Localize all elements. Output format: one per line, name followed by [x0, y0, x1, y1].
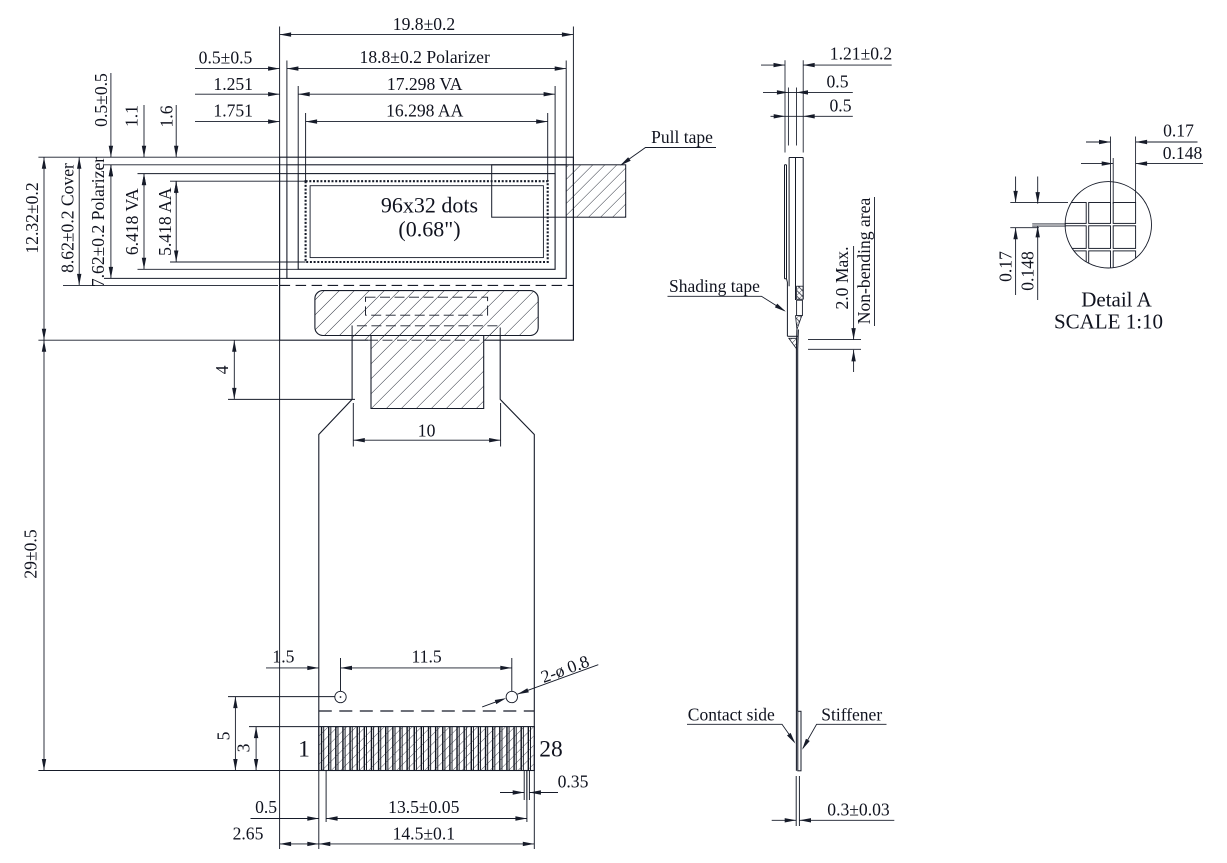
dim 0.148 left lines: [1037, 177, 1039, 301]
svg-text:Pull tape: Pull tape: [651, 127, 713, 147]
arrows dim 4: [232, 340, 236, 352]
side view sealant crosshatch block: [797, 286, 804, 299]
neck width extension ticks: [353, 403, 500, 447]
FPC neck right edge: [500, 336, 534, 771]
pin area left extension below: [325, 771, 327, 822]
arrow contact side leader: [787, 733, 797, 745]
svg-text:29±0.5: 29±0.5: [21, 529, 41, 578]
svg-text:Shading tape: Shading tape: [669, 276, 760, 296]
svg-text:0.3±0.03: 0.3±0.03: [827, 800, 890, 820]
dim 0.5 bottom leader line: [251, 818, 319, 820]
arrows dim 17.298: [298, 92, 310, 96]
svg-text:1.1: 1.1: [122, 105, 142, 127]
svg-text:5: 5: [213, 731, 233, 740]
arrows dim 18.8: [287, 66, 299, 70]
arrows dim 16.298: [306, 119, 318, 123]
dim 0.5 first extension lines: [788, 88, 796, 146]
side view glass right face: [802, 158, 804, 300]
dim 0.5 first lines: [763, 91, 853, 93]
dim 0.3±0.03 lines: [772, 819, 895, 821]
svg-text:(0.68"): (0.68"): [398, 217, 460, 242]
driver IC stiffener hatched rounded block: [315, 291, 538, 336]
polarizer right extension above: [565, 61, 567, 165]
dim 18.8±0.2 line: [287, 68, 566, 70]
arrow shading tape leader: [775, 304, 787, 314]
arrows dim 2.65: [280, 842, 292, 846]
hole diameter leader line: [482, 665, 598, 707]
FPC bend hidden dashed line: [319, 710, 535, 712]
dim 11.5 line: [341, 667, 512, 669]
stiffener underline and leader: [803, 724, 887, 748]
svg-text:1.6: 1.6: [156, 105, 176, 127]
svg-text:4: 4: [212, 365, 232, 374]
arrows dim 1.6: [174, 146, 178, 158]
svg-text:1.751: 1.751: [213, 101, 253, 121]
side view glass top cap: [789, 157, 803, 159]
dim 19.8±0.2 line: [280, 34, 574, 36]
side view module bottom cap: [787, 335, 798, 337]
pull tape body: [492, 165, 626, 217]
VA left extension above: [297, 86, 299, 174]
arrows dim 10: [353, 438, 365, 442]
arrows dim 13.5: [326, 816, 338, 820]
arrows dim 6.418: [142, 174, 146, 186]
svg-text:14.5±0.1: 14.5±0.1: [393, 824, 455, 844]
dim 1.6 lines: [175, 105, 177, 195]
dim 0.148 top lines: [1081, 163, 1203, 165]
arrows dim 7.62: [109, 165, 113, 177]
FPC tail hatched block: [353, 327, 500, 409]
arrow dim 0.5 bottom: [307, 816, 319, 820]
polarizer left extension above: [286, 61, 288, 165]
svg-text:0.17: 0.17: [1163, 121, 1194, 141]
dim 1.21±0.2 extension lines: [785, 60, 803, 152]
dim 1.21±0.2 lines: [761, 64, 892, 66]
polarizer bottom extension left: [104, 277, 287, 279]
svg-text:0.148: 0.148: [1018, 251, 1038, 291]
cover bottom hidden dashed line: [280, 284, 574, 286]
arrows dim 0.148 top: [1102, 161, 1114, 165]
dim 0.35 lines: [500, 792, 558, 794]
dim 3 line: [255, 727, 257, 771]
svg-text:SCALE 1:10: SCALE 1:10: [1054, 310, 1163, 334]
dim 8.62±0.2 Cover line: [78, 157, 80, 285]
svg-text:5.418 AA: 5.418 AA: [155, 187, 175, 256]
svg-text:6.418 VA: 6.418 VA: [122, 188, 142, 255]
arrow dim 0.5 top: [268, 66, 280, 70]
svg-text:0.148: 0.148: [1163, 143, 1203, 163]
VA right extension above: [554, 86, 556, 174]
hole center extension left: [340, 658, 342, 691]
svg-text:0.5±0.5: 0.5±0.5: [199, 48, 253, 68]
svg-text:2.65: 2.65: [233, 824, 264, 844]
dim 13.5±0.05 line: [326, 818, 527, 820]
arrow pull tape leader: [619, 157, 631, 167]
arrows dim 19.8: [280, 32, 292, 36]
dim 6.418 VA line: [143, 174, 145, 270]
side view stiffener rect: [798, 711, 801, 771]
svg-text:Contact side: Contact side: [688, 704, 775, 724]
non-bending area extension lines: [808, 340, 861, 350]
module left edge extension above: [279, 27, 281, 158]
arrows dim 0.17 top: [1099, 140, 1111, 144]
pixel grid inside circle: [1058, 203, 1136, 273]
tail left edge extension below: [318, 771, 320, 850]
side view bottom hatch triangle: [789, 338, 797, 349]
FPC hidden dashed outline under stiffener: [352, 326, 500, 336]
svg-text:19.8±0.2: 19.8±0.2: [393, 14, 455, 34]
svg-text:17.298 VA: 17.298 VA: [387, 74, 463, 94]
side view polarizer and tape slab: [785, 165, 787, 279]
pin number 1: [298, 737, 563, 763]
arrows dim 8.62: [77, 157, 81, 169]
arrows dim 1.21: [774, 63, 786, 67]
arrow stiffener leader: [800, 739, 810, 751]
dim 5.418 AA line: [175, 181, 177, 262]
pin area right extension below: [526, 771, 528, 822]
detail arrowheads: [1013, 140, 1147, 239]
pull tape leader line: [622, 148, 717, 165]
svg-text:11.5: 11.5: [412, 647, 442, 667]
arrows dim 0.3: [785, 818, 797, 822]
AA left extension above: [305, 113, 307, 181]
VA bottom extension left: [138, 268, 299, 270]
side view FPC bond white rect: [797, 300, 803, 315]
polarizer outline front view: [287, 165, 566, 279]
arrows dim 0.148 left: [1036, 192, 1040, 204]
arrows dim 11.5: [341, 666, 353, 670]
AA inner solid outline: [310, 186, 543, 258]
VA outline front view: [298, 174, 555, 270]
svg-text:0.5±0.5: 0.5±0.5: [91, 73, 111, 127]
arrows dim 2.0 Max: [851, 328, 855, 340]
detail left extension lines: [1010, 202, 1068, 227]
detail top extension lines: [1111, 137, 1136, 205]
dim 29±0.5 line: [43, 340, 45, 770]
svg-text:12.32±0.2: 12.32±0.2: [22, 182, 42, 253]
svg-text:1.21±0.2: 1.21±0.2: [830, 44, 892, 64]
arrows dim 5: [233, 697, 237, 709]
svg-text:Stiffener: Stiffener: [821, 704, 882, 724]
dim 1.5 leader line: [266, 667, 319, 669]
display area label 96x32 dots: [381, 193, 478, 242]
arrows dim 29: [42, 340, 46, 352]
FPC neck left edge: [319, 336, 352, 771]
dim 1.251 leader line: [195, 93, 280, 95]
tail bottom extension left: [38, 770, 318, 772]
arrows dim 0.35: [513, 790, 525, 794]
module top extension to left: [38, 156, 279, 158]
arrows dim 3: [254, 727, 258, 739]
svg-text:1.5: 1.5: [272, 647, 294, 667]
dim 0.5±0.5 top leader line: [195, 68, 280, 70]
arrows dim 5.418: [174, 181, 178, 193]
svg-text:0.5: 0.5: [255, 797, 277, 817]
dim 0.5 second lines: [771, 115, 853, 117]
arrows dim 14.5: [319, 842, 331, 846]
arrow dim 1.5: [307, 666, 319, 670]
hole center extension right: [511, 658, 513, 691]
dim 0.17 left lines: [1015, 177, 1017, 296]
dim 17.298 VA line: [298, 93, 555, 95]
module right edge extension above: [572, 27, 574, 158]
side view taper crosshatch triangle: [796, 316, 802, 330]
side view shading tape outer face: [786, 279, 789, 337]
svg-text:0.17: 0.17: [996, 251, 1016, 282]
svg-text:2-ø 0.8: 2-ø 0.8: [538, 651, 592, 687]
arrows dim 0.17 left: [1013, 191, 1017, 203]
last pin extension ticks: [524, 771, 529, 800]
dim 10 line: [353, 439, 500, 441]
dim 16.298 AA line: [306, 121, 548, 123]
arrows dim 12.32: [42, 157, 46, 169]
svg-text:13.5±0.05: 13.5±0.05: [388, 797, 459, 817]
arrows dim 0.5 first: [777, 90, 789, 94]
dim 7.62±0.2 Polarizer line: [110, 165, 112, 279]
contact side underline and leader: [687, 724, 794, 742]
side view FPC tail lines: [796, 330, 798, 771]
svg-text:10: 10: [418, 421, 436, 441]
dim 1.1 lines: [143, 105, 145, 187]
arrow dim 1.251: [268, 92, 280, 96]
svg-text:Non-bending area: Non-bending area: [854, 198, 874, 325]
dim 14.5±0.1 line: [319, 843, 535, 845]
arrows dim 0.5 second: [774, 114, 786, 118]
neck end extension line: [228, 398, 355, 400]
svg-text:3: 3: [234, 743, 254, 752]
svg-text:8.62±0.2 Cover: 8.62±0.2 Cover: [58, 163, 78, 273]
dim 2.65 line: [280, 843, 319, 845]
non-bending area underline: [874, 197, 876, 326]
svg-text:7.62±0.2 Polarizer: 7.62±0.2 Polarizer: [88, 157, 108, 287]
polarizer top extension left: [104, 164, 287, 166]
module bottom extension left: [38, 339, 279, 341]
detail texts: [996, 121, 1203, 291]
AA dotted outline front view: [306, 181, 548, 262]
cover bottom extension line left: [63, 284, 278, 286]
alignment hole right: [506, 691, 517, 702]
tail right edge extension below: [533, 771, 535, 850]
arrows hole diameter leader: [495, 696, 507, 704]
alignment hole left: [335, 691, 346, 702]
detail circle: [1065, 182, 1151, 268]
svg-text:1.251: 1.251: [213, 74, 253, 94]
svg-text:Detail A: Detail A: [1081, 288, 1152, 312]
svg-text:1: 1: [298, 737, 310, 763]
dim 0.17 top lines: [1086, 141, 1198, 143]
dim 12.32±0.2 line: [43, 157, 45, 340]
VA top extension left: [138, 173, 299, 175]
module left edge extension below: [279, 340, 281, 849]
module bottom hidden dashed segment across neck: [368, 339, 484, 341]
shading tape underline and leader: [668, 296, 785, 310]
svg-text:0.35: 0.35: [558, 772, 589, 792]
dim 4 line: [233, 340, 235, 399]
hole height extension line: [228, 696, 335, 698]
svg-text:0.5: 0.5: [827, 72, 849, 92]
pin top extension line: [249, 726, 319, 728]
IC die hidden dashed rect: [366, 297, 488, 315]
AA bottom extension left: [170, 261, 306, 263]
AA top extension left: [170, 180, 306, 182]
side view glass left face: [788, 158, 790, 287]
module outline front view: [280, 157, 574, 340]
dim 1.751 leader line: [195, 121, 280, 123]
dim 2.0 Max lines: [853, 246, 855, 372]
svg-text:0.5: 0.5: [830, 95, 852, 115]
arrows dim 0.5 vertical: [109, 146, 113, 158]
svg-text:2.0 Max.: 2.0 Max.: [832, 246, 852, 309]
arrow dim 1.751: [268, 119, 280, 123]
side view glass middle seam: [795, 158, 797, 301]
dim 5 line: [234, 697, 236, 771]
connector pin block: [319, 727, 535, 771]
svg-text:18.8±0.2 Polarizer: 18.8±0.2 Polarizer: [360, 47, 490, 67]
svg-text:28: 28: [539, 737, 563, 763]
dim 0.5±0.5 vertical left lines: [110, 73, 112, 177]
AA right extension above: [547, 113, 549, 181]
svg-text:16.298 AA: 16.298 AA: [386, 101, 464, 121]
svg-text:96x32 dots: 96x32 dots: [381, 193, 478, 218]
side view tail thickness reference lines below: [796, 776, 799, 826]
arrows dim 1.1: [142, 146, 146, 158]
alignment hole left center dot: [340, 696, 342, 698]
